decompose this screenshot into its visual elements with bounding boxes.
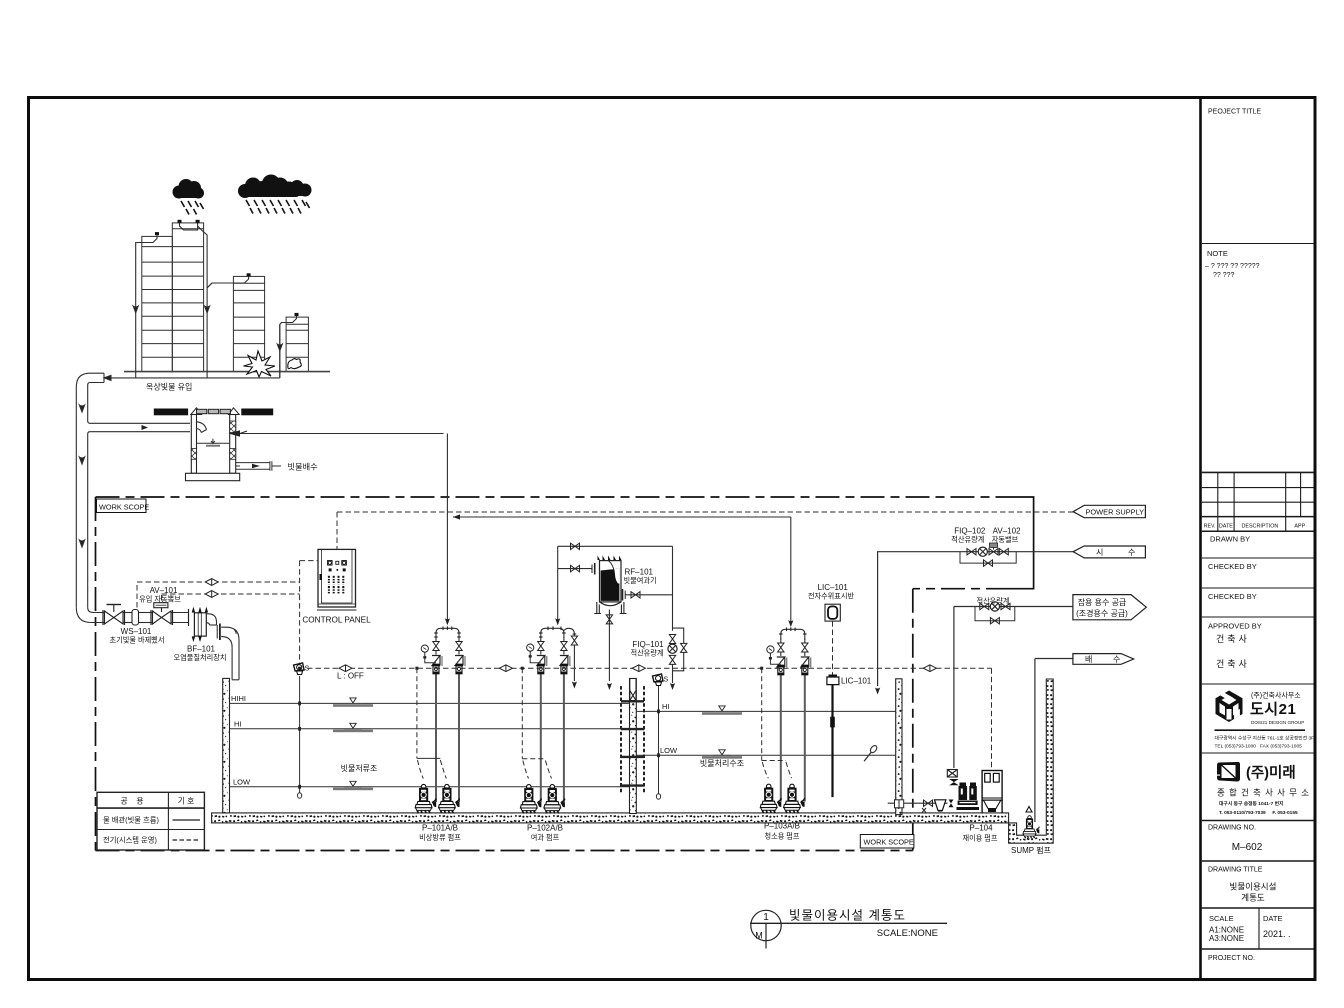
title block grid: [1202, 244, 1314, 950]
svg-text:오염물질처리장치: 오염물질처리장치: [174, 653, 227, 662]
pump riser pipes P-101: [415, 434, 465, 843]
tilted float tank2 right: [862, 744, 878, 763]
svg-text:DOSI21 DESIGN GROUP: DOSI21 DESIGN GROUP: [1251, 720, 1304, 725]
inlet treatment piping: WS-101 / AV-101 / BF-101: [76, 603, 188, 626]
svg-text:시: 시: [1096, 548, 1103, 557]
building B: [233, 276, 264, 371]
svg-text:CONTROL PANEL: CONTROL PANEL: [302, 616, 371, 625]
outlet line right: [625, 594, 672, 596]
LIC-101 panel: [808, 583, 855, 621]
svg-text:계통도: 계통도: [1241, 893, 1265, 903]
arch: [436, 628, 459, 638]
branch valves P-102A: [537, 637, 547, 677]
reuse supply meter line: [954, 597, 1073, 624]
level sensor tank1 electrode: [294, 663, 310, 798]
terminal columns: [328, 576, 344, 595]
svg-text:건축사: 건축사: [1216, 659, 1250, 669]
legend table: [97, 792, 204, 850]
svg-text:수: 수: [1128, 548, 1135, 557]
P-104 booster unit: [888, 607, 1002, 843]
inflow double pipe from buildings: [76, 373, 190, 607]
water line: [197, 442, 230, 444]
L:OFF line: [307, 667, 992, 669]
roof drain boxes: [155, 220, 299, 316]
starburst: [244, 351, 276, 377]
mirae logo block: [1217, 762, 1313, 816]
flowmeter FIQ-101: [668, 644, 677, 653]
backwash top line: [558, 545, 673, 547]
svg-text:종합건축사사무소: 종합건축사사무소: [1217, 788, 1313, 798]
svg-text:SCALE:NONE: SCALE:NONE: [877, 928, 938, 939]
svg-text:(주)건축사사무소: (주)건축사사무소: [1251, 691, 1301, 700]
svg-text:건축사: 건축사: [1216, 634, 1250, 644]
flag drain: [1073, 654, 1134, 665]
left wall: [223, 678, 230, 813]
svg-text:비상방류 펌프: 비상방류 펌프: [419, 833, 461, 842]
sump pump: [1011, 659, 1073, 856]
svg-text:빗물배수: 빗물배수: [288, 462, 319, 471]
svg-text:여과 펌프: 여과 펌프: [531, 833, 560, 842]
svg-text:HI: HI: [234, 719, 242, 728]
pump P-102B: [544, 785, 565, 814]
svg-text:유입 자동뽘브: 유입 자동뽘브: [139, 595, 181, 604]
right wall tank2: [896, 679, 902, 815]
svg-text:빛물이용시설 계통도: 빛물이용시설 계통도: [789, 909, 906, 923]
control panel: [302, 549, 371, 624]
gate valve WS-101: [105, 611, 124, 624]
svg-text:SUMP 펌프: SUMP 펌프: [1011, 845, 1051, 855]
svg-text:도시21: 도시21: [1250, 701, 1296, 718]
vessel: [592, 556, 626, 614]
svg-text:전자수위표시반: 전자수위표시반: [808, 592, 855, 601]
svg-text:재이용 펌프: 재이용 펌프: [962, 834, 997, 843]
sump pit floor: [1009, 679, 1054, 843]
hatch patches: [191, 421, 235, 459]
svg-text:HI: HI: [662, 702, 670, 711]
level sensor tank2 electrode: [653, 674, 669, 799]
svg-text:잡용 용수 공급: 잡용 용수 공급: [1078, 597, 1127, 607]
svg-text:LOW: LOW: [233, 777, 251, 786]
flags: [1073, 505, 1146, 664]
feed line tee up from P-102 riser: [558, 568, 592, 570]
flag POWER SUPPLY: [1073, 505, 1145, 517]
knobs row: [328, 561, 347, 566]
svg-text:L : OFF: L : OFF: [337, 672, 364, 681]
svg-text:WORK SCOPE: WORK SCOPE: [99, 502, 149, 511]
arrows: [79, 405, 84, 412]
svg-text:빗물처리수조: 빗물처리수조: [700, 759, 744, 768]
divider wall top port + screens: [621, 679, 644, 794]
flag city water: [1073, 546, 1145, 558]
svg-text:DRAWING NO.: DRAWING NO.: [1208, 825, 1256, 832]
flowmeter FIQ-102: [978, 547, 987, 556]
svg-text:1: 1: [763, 912, 769, 923]
city water line FIQ-102/AV-102: [875, 527, 1074, 695]
svg-text:T. 053-0110/793-7039 F. 05: T. 053-0110/793-7039 F. 053-0155: [1219, 810, 1298, 816]
svg-text:수: 수: [1113, 655, 1120, 664]
pump P-102A: [520, 785, 541, 814]
WORK SCOPE label top-left: [97, 499, 150, 513]
elbow at collector down: [76, 373, 104, 607]
valve AV-101 automatic inlet: [153, 611, 172, 624]
riser from above: [446, 434, 448, 625]
dosi21 logo block: [1215, 691, 1315, 750]
branch valves P-103A: [777, 639, 787, 679]
svg-text:CHECKED BY: CHECKED BY: [1208, 562, 1257, 571]
svg-text:빛물이용시설: 빛물이용시설: [1230, 882, 1277, 892]
control diamond L:OFF line 1: [339, 665, 352, 672]
water levels tank1: [230, 703, 630, 786]
WS sensor loop: [136, 582, 138, 608]
svg-text:기 호: 기 호: [178, 797, 195, 806]
svg-text:빗물여과기: 빗물여과기: [624, 576, 657, 585]
svg-text:NOTE: NOTE: [1207, 249, 1228, 258]
flange ticks: [103, 609, 189, 626]
svg-text:DESCRIPTION: DESCRIPTION: [1241, 523, 1278, 529]
control diamond L:OFF line 3: [632, 665, 645, 672]
pump P-103A: [760, 784, 781, 813]
ground line: [124, 371, 330, 373]
svg-text:DRAWN BY: DRAWN BY: [1210, 535, 1250, 544]
pump P-101B: [439, 784, 460, 813]
bypass back to tank1: [571, 636, 577, 645]
right vertical + FIQ-101: [672, 546, 674, 630]
branch valves P-101A: [432, 637, 442, 677]
strainer: [935, 800, 946, 811]
building C: [286, 317, 308, 372]
wiring junction dots: [298, 667, 763, 670]
svg-text:대구광역시 수성구 지산동 761-1호 상공정민전 3F: 대구광역시 수성구 지산동 761-1호 상공정민전 3F: [1215, 735, 1315, 742]
svg-text:LOW: LOW: [660, 746, 678, 755]
svg-text:초기빛물 바제삤서: 초기빛물 바제삤서: [110, 636, 165, 645]
pump set P-102: [520, 546, 577, 842]
elbow from vertical pipe into horizontal: [76, 607, 101, 622]
branch valves P-101B: [455, 637, 465, 677]
control diamond L:OFF line 4: [923, 665, 936, 672]
left drop to L:OFF line: [299, 561, 301, 663]
branch valves P-102B: [560, 637, 570, 677]
flange between elbows: [219, 624, 221, 641]
inlet elbow inside pit: [197, 422, 207, 433]
svg-text:(조경용수 공급): (조경용수 공급): [1076, 608, 1128, 618]
main title bottom: [750, 909, 947, 949]
svg-text:빗물저류조: 빗물저류조: [341, 764, 378, 773]
control dashed wiring: [137, 512, 1073, 770]
flowmeter reuse totalizer: [990, 602, 999, 611]
buildings: [104, 220, 330, 392]
svg-text:P–102A/B: P–102A/B: [527, 824, 563, 833]
drain from bottom: [608, 610, 610, 682]
svg-text:DRAWING TITLE: DRAWING TITLE: [1208, 867, 1263, 874]
svg-text:적산유량계: 적산유량계: [951, 535, 984, 544]
building A left section: [142, 236, 173, 371]
pipe segments between components: [101, 612, 105, 614]
pressure gauge P-103: [767, 646, 774, 660]
svg-text:TEL (053)793-1000 FAX (053)7: TEL (053)793-1000 FAX (053)793-1005: [1215, 744, 1303, 750]
inline sensor WS: [132, 610, 139, 626]
tee to pit: [88, 421, 190, 423]
downpipe arrows: [133, 306, 138, 313]
bird shape: [288, 359, 301, 369]
return line from P-101: [232, 433, 444, 435]
svg-text:SCALE: SCALE: [1209, 914, 1234, 923]
svg-text:배: 배: [1085, 655, 1092, 664]
svg-text:P–101A/B: P–101A/B: [422, 824, 458, 833]
BF-101 vessel: [174, 607, 239, 680]
svg-text:WORK SCOPE: WORK SCOPE: [864, 838, 914, 847]
svg-text:DATE: DATE: [1263, 914, 1282, 923]
WORK SCOPE label bottom-right: [860, 835, 914, 849]
control diamond AV-101 line: [205, 591, 218, 598]
pressure gauge P-102: [527, 644, 534, 658]
svg-text:자동밸브: 자동밸브: [992, 535, 1019, 544]
work scope boundary (phantom line): [96, 497, 1034, 851]
svg-text:옥상빛물 유입: 옥상빛물 유입: [146, 382, 192, 392]
svg-text:M–602: M–602: [1232, 842, 1263, 853]
drawing title circle 1/M: [751, 910, 781, 940]
control diamond L:OFF line 2: [499, 665, 512, 672]
control diamond WS sensor line: [205, 579, 218, 586]
svg-text:대구시 동구 송정동 1041-7 번지: 대구시 동구 송정동 1041-7 번지: [1219, 800, 1283, 807]
svg-text:APPROVED BY: APPROVED BY: [1208, 622, 1262, 631]
AV-101 loop: [161, 594, 163, 601]
svg-text:P–104: P–104: [969, 824, 993, 833]
bypass: [673, 628, 684, 671]
float switch tank1: [294, 663, 310, 675]
pressure gauge P-101: [421, 645, 428, 659]
outlet pipe right: [236, 461, 272, 471]
pit walls (white, double line): [186, 415, 240, 481]
flag reuse water supply: [1073, 595, 1146, 620]
svg-text:?? ???: ?? ???: [1213, 272, 1235, 279]
svg-text:POWER SUPPLY: POWER SUPPLY: [1086, 508, 1145, 517]
floor slab: [212, 813, 1009, 823]
svg-text:HIHI: HIHI: [231, 694, 246, 703]
main power line to panel: [336, 512, 338, 549]
outlet elbow top right going down to tank: [206, 614, 239, 680]
tanks: [212, 663, 1054, 843]
svg-text:– ? ??? ?? ?????: – ? ??? ?? ?????: [1205, 263, 1260, 270]
cable drop: [417, 668, 446, 778]
cabinet: [982, 771, 1002, 801]
svg-text:M: M: [755, 931, 763, 941]
svg-text:CHECKED BY: CHECKED BY: [1208, 592, 1257, 601]
pumps: [957, 783, 980, 811]
RF-101 filter: [558, 543, 687, 690]
branch valves P-103B: [801, 639, 811, 679]
pump set P-103: [453, 514, 811, 840]
svg-text:REV.: REV.: [1204, 523, 1216, 529]
svg-text:물 배관(빗물 흐름): 물 배관(빗물 흐름): [103, 816, 159, 825]
svg-text:A3:NONE: A3:NONE: [1209, 934, 1244, 943]
svg-text:2021. .: 2021. .: [1263, 929, 1291, 939]
svg-text:적산유량계: 적산유량계: [976, 597, 1009, 606]
divider wall: [630, 679, 637, 814]
cloud large: [238, 175, 312, 214]
svg-text:DATE: DATE: [1219, 523, 1233, 529]
svg-text:청소용 펌프: 청소용 펌프: [764, 832, 799, 841]
collector line: [104, 377, 280, 379]
valve assembly on riser: [947, 770, 957, 778]
svg-text:(주)미래: (주)미래: [1246, 765, 1296, 782]
title block texts: [1204, 109, 1306, 963]
float switch tank2: [653, 674, 669, 686]
cloud small: [173, 179, 205, 215]
svg-text:전기(시스템 운영): 전기(시스템 운영): [103, 836, 157, 845]
settling pit: [154, 408, 444, 481]
svg-text:PEOJECT TITLE: PEOJECT TITLE: [1208, 109, 1261, 116]
LIC-101 drop: [832, 621, 834, 674]
downpipes: [136, 223, 297, 378]
svg-text:공 용: 공 용: [120, 797, 143, 806]
building A tower: [172, 223, 203, 372]
svg-text:적산유량계: 적산유량계: [630, 649, 663, 658]
svg-text:APP: APP: [1294, 523, 1305, 529]
LIC-101 level probe: [827, 675, 872, 798]
pump P-101A: [415, 784, 436, 813]
water levels tank2: [636, 711, 895, 755]
pump P-103B: [784, 784, 805, 813]
svg-text:P–103A/B: P–103A/B: [764, 822, 800, 831]
suction piping from tank: [888, 802, 948, 804]
svg-text:PROJECT NO.: PROJECT NO.: [1208, 955, 1255, 962]
svg-text:LIC–101: LIC–101: [841, 677, 872, 686]
cable drop: [522, 668, 551, 778]
bypass loop below: [960, 552, 1016, 563]
